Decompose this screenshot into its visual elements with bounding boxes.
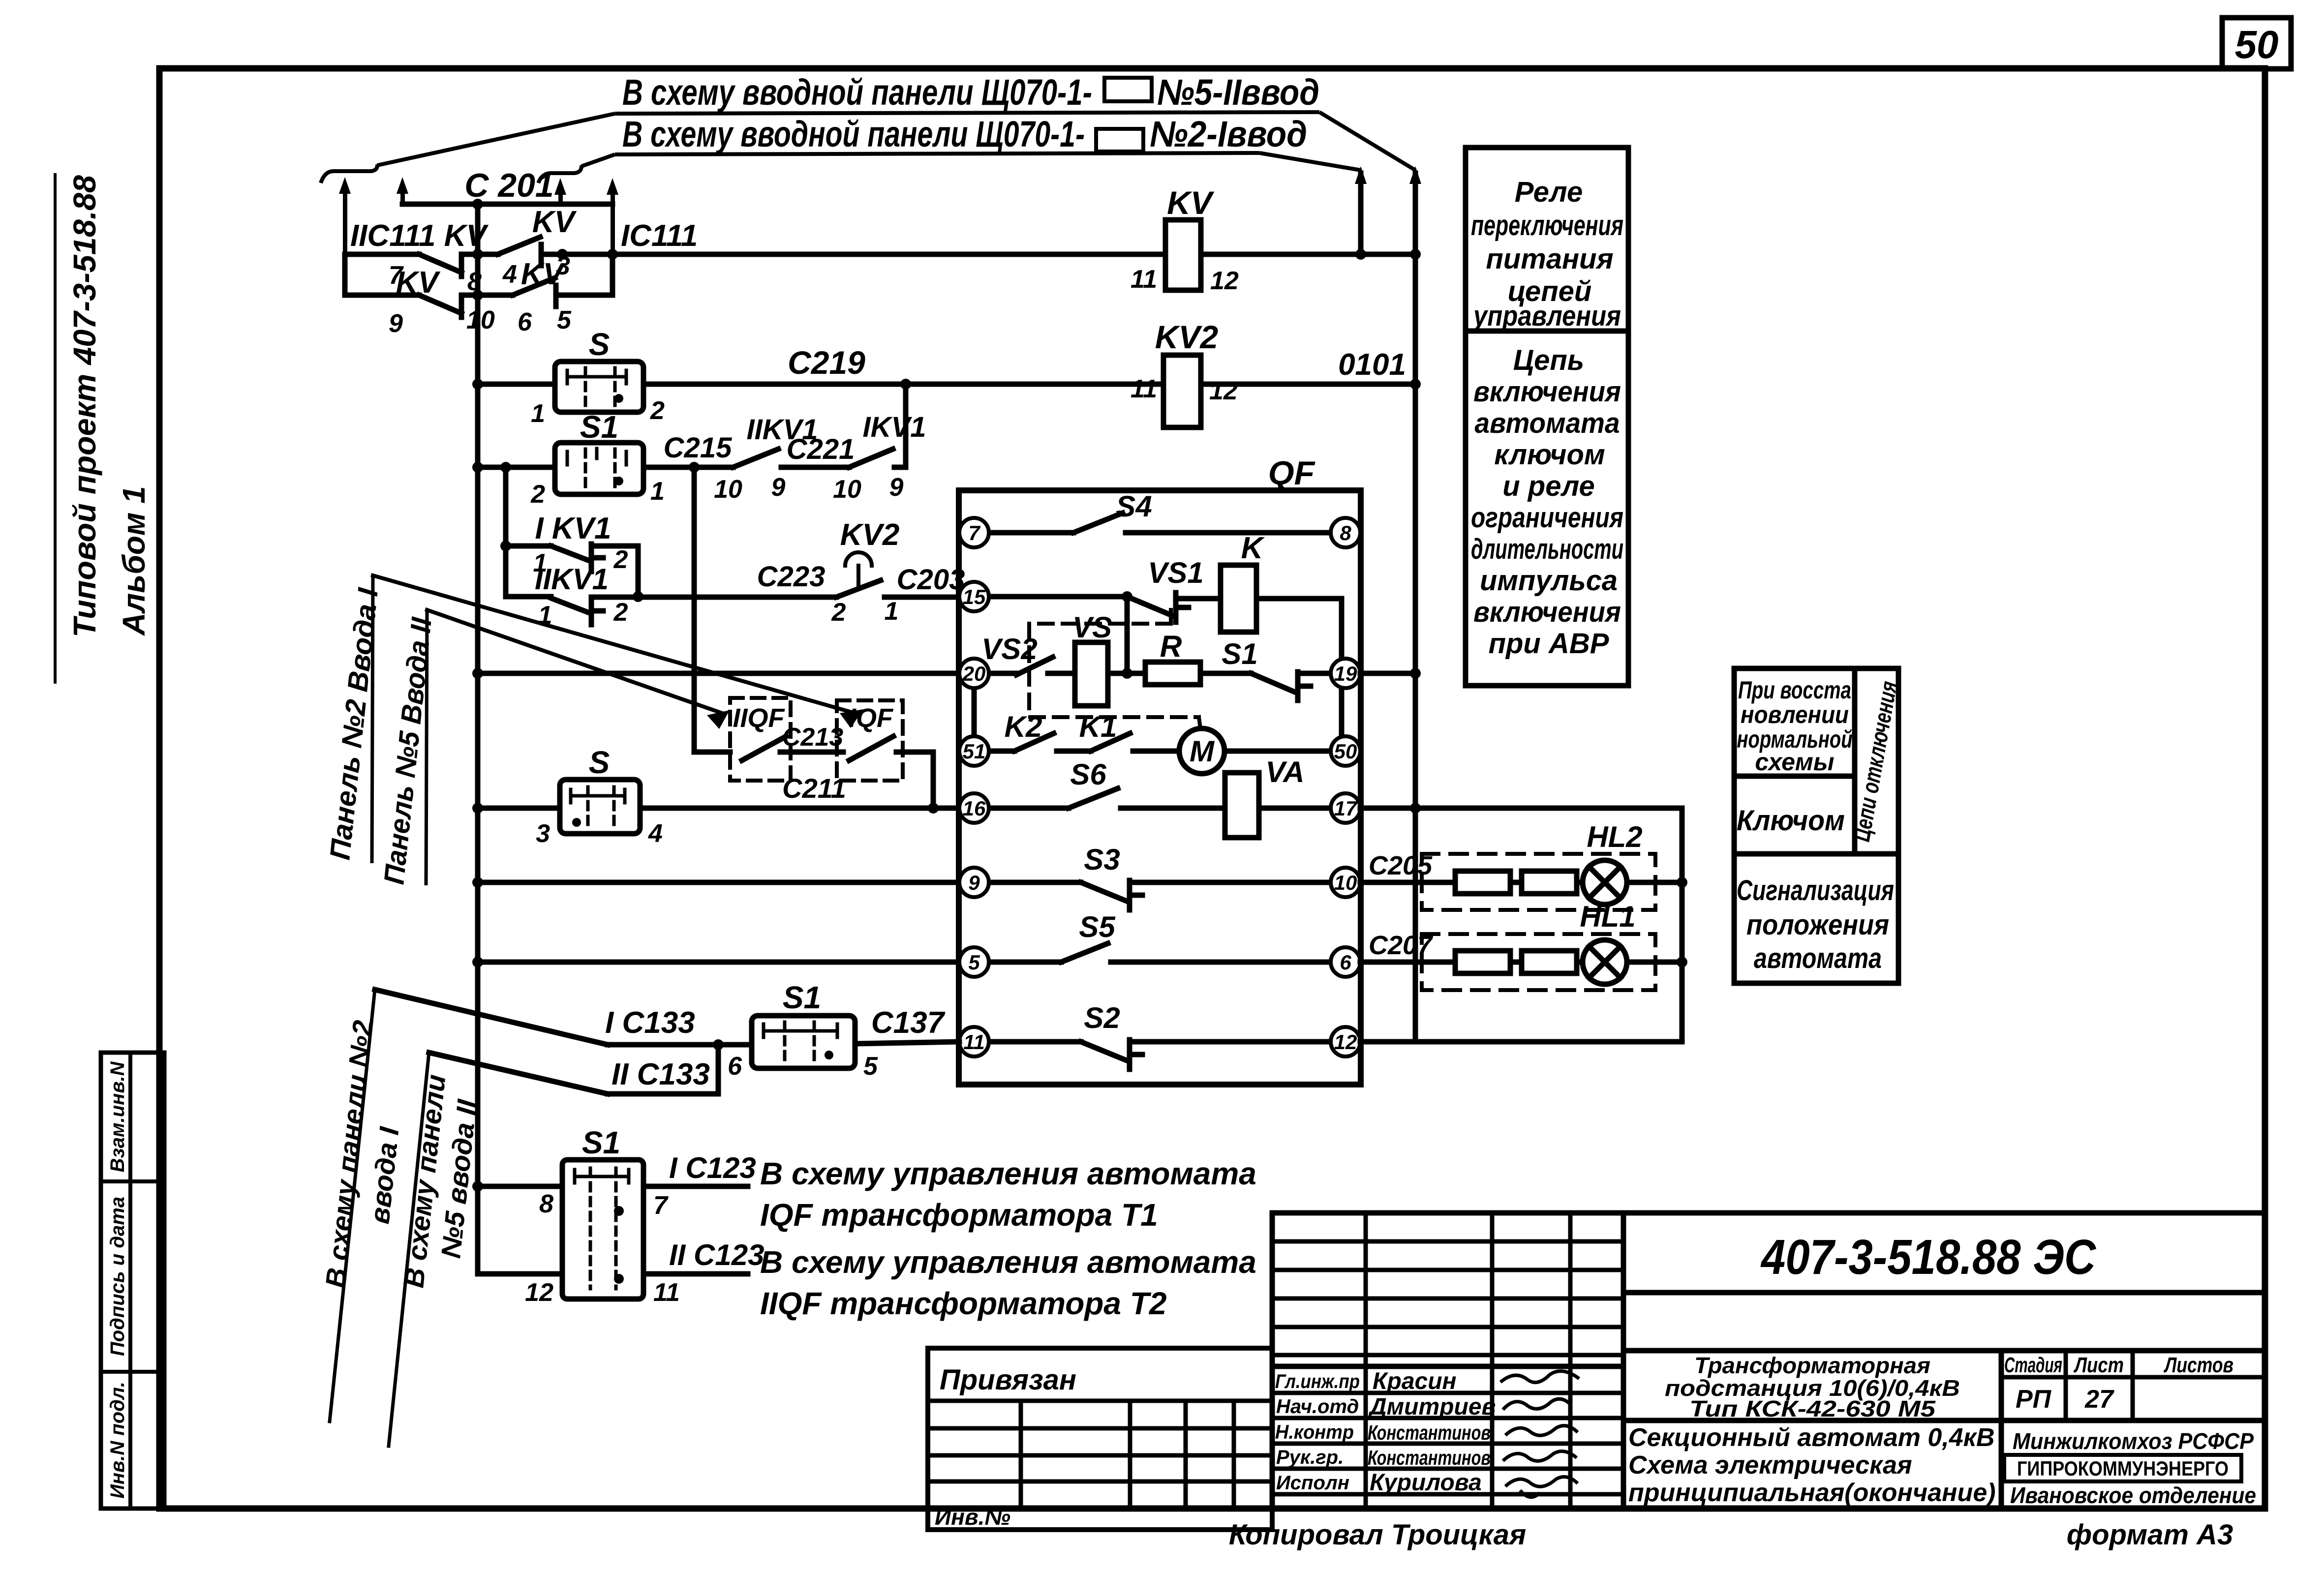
S row16 internals	[571, 789, 625, 803]
function panel 2 box	[1734, 668, 1898, 983]
title col main divider	[1621, 1213, 1626, 1509]
margin note underline	[54, 173, 57, 684]
note 1 box symbol	[1104, 78, 1152, 101]
svg-text:Ивановское отделение: Ивановское отделение	[2010, 1482, 2256, 1508]
binding header bottom	[928, 1399, 1272, 1403]
RIGHTSIDE	[1360, 173, 1682, 1042]
svg-text:Секционный автомат 0,4кВ: Секционный автомат 0,4кВ	[1628, 1423, 1995, 1452]
leader arrow to IIQF	[427, 610, 722, 713]
svg-text:11: 11	[653, 1278, 680, 1307]
wire right bus II vertical	[1413, 173, 1418, 808]
lamp circuit HL2 dashed box	[1422, 854, 1655, 910]
svg-text:C213: C213	[782, 723, 843, 752]
aux module dashed box VS	[1029, 610, 1199, 717]
wire riser 15-20	[1125, 597, 1130, 673]
svg-text:IKV1: IKV1	[863, 411, 926, 443]
svg-text:9: 9	[889, 473, 904, 502]
TERMINALS	[959, 518, 1360, 1056]
QFBOX	[959, 490, 1361, 1085]
PANELS	[1466, 148, 1898, 983]
node bus II rowA	[1410, 249, 1421, 260]
contact I KV1 aux blade	[551, 546, 589, 561]
svg-text:S6: S6	[1070, 758, 1106, 791]
contact S3 blade	[1081, 882, 1127, 901]
aux box IQF dashed	[837, 700, 903, 781]
svg-text:автомата: автомата	[1754, 942, 1882, 974]
svg-text:9: 9	[968, 871, 980, 894]
svg-text:C 201: C 201	[464, 167, 553, 204]
wire dashed box to motor	[1199, 717, 1200, 728]
wire HL2 to frame	[1627, 880, 1682, 885]
strip divider 2	[101, 1370, 164, 1374]
wire S3 to 10	[1130, 880, 1331, 885]
svg-text:Исполн: Исполн	[1276, 1472, 1349, 1494]
terminal 7	[959, 518, 989, 547]
contact KV2 blade row 15	[836, 580, 881, 597]
svg-text:C219: C219	[788, 344, 865, 381]
wire row 2 left	[345, 293, 419, 298]
wire row A IC111 to KV coil	[612, 252, 1165, 257]
wire row C bus to S1 block	[478, 465, 555, 470]
mini row 1	[1272, 1239, 1623, 1244]
wire S1 feeder top	[478, 1184, 562, 1189]
contact VS1 tick	[1176, 593, 1189, 622]
svg-text:5: 5	[863, 1052, 878, 1081]
switch block S row B	[555, 362, 643, 412]
binding col 3	[1184, 1401, 1188, 1509]
binding col 4	[1232, 1401, 1236, 1509]
strip divider 1	[101, 1179, 164, 1183]
signature 2	[1503, 1399, 1571, 1410]
wire C215-C213 riser	[694, 467, 730, 752]
PRIVYAZAN TABLE	[928, 1348, 1272, 1530]
svg-text:2: 2	[613, 598, 628, 627]
contact KV 9-10 blade	[419, 295, 461, 313]
wire row 16 bus to S block	[478, 806, 560, 811]
node IC133 dot	[713, 1039, 724, 1050]
switch block S1 row C	[555, 443, 643, 494]
terminal 19	[1331, 659, 1360, 688]
svg-text:9: 9	[389, 309, 403, 338]
wire row B bus to S block	[478, 382, 555, 387]
relay coil KV	[1165, 220, 1201, 290]
svg-text:I KV1: I KV1	[535, 512, 611, 545]
wire IIC133 diagonal	[429, 1053, 608, 1094]
svg-text:KV: KV	[396, 266, 441, 300]
svg-text:10: 10	[833, 475, 861, 504]
svg-text:S: S	[589, 745, 610, 780]
left margin stamp strip	[101, 1053, 164, 1509]
svg-text:50: 50	[1334, 740, 1357, 763]
svg-text:8: 8	[539, 1190, 553, 1218]
svg-text:16: 16	[963, 797, 986, 820]
wire S5 to 6	[1111, 960, 1331, 965]
svg-text:формат А3: формат А3	[2067, 1519, 2233, 1551]
wire IC133 row	[608, 1042, 752, 1048]
svg-text:KV: KV	[1167, 184, 1215, 221]
svg-text:Лист: Лист	[2074, 1353, 2124, 1377]
wire right bus I vertical	[1358, 173, 1364, 254]
wire K coil to terminal 19 riser	[1256, 599, 1342, 659]
leader line panel No2	[330, 990, 375, 1421]
org box ГИПРОКОММУНЭНЕРГО	[2004, 1455, 2241, 1481]
KV1 AUX PAIR	[506, 467, 959, 625]
wire I KV1 aux right	[591, 546, 638, 597]
relay coil KV2	[1163, 355, 1201, 427]
wire C213 between boxes	[780, 750, 843, 755]
svg-text:VA: VA	[1266, 755, 1305, 788]
svg-text:переключения: переключения	[1471, 210, 1623, 241]
svg-text:3: 3	[536, 819, 550, 848]
svg-text:питания: питания	[1486, 243, 1613, 275]
resistor HL2 b	[1522, 871, 1577, 894]
contact II KV1 aux blade	[551, 598, 589, 613]
svg-text:6: 6	[1340, 951, 1351, 974]
S1 C137 internals	[764, 1024, 837, 1037]
wire 6 to lamp HL1	[1360, 960, 1451, 965]
contact KV 6-5 blade	[513, 278, 555, 295]
svg-text:S1: S1	[582, 1125, 620, 1160]
binding col 2	[1128, 1401, 1132, 1509]
svg-text:10: 10	[466, 306, 495, 334]
svg-text:12: 12	[1210, 267, 1239, 295]
contact K1 blade	[1091, 733, 1130, 751]
svg-text:9: 9	[771, 473, 786, 502]
signature 4	[1503, 1451, 1577, 1461]
node bus/row20	[472, 668, 483, 679]
svg-text:C137: C137	[871, 1006, 946, 1040]
wire 9 lead	[989, 880, 1081, 885]
node C219 join	[900, 379, 911, 390]
wire KV1 pair left riser	[503, 467, 509, 597]
svg-text:8: 8	[1340, 521, 1351, 544]
svg-text:№5-IIввод: №5-IIввод	[1157, 72, 1319, 113]
wire 19 to bus	[1360, 671, 1415, 676]
svg-text:11: 11	[1131, 375, 1157, 403]
switch block S row 16	[560, 780, 640, 834]
terminal 5	[959, 947, 989, 977]
relay coil K	[1221, 565, 1256, 632]
binding row 2	[928, 1426, 1272, 1431]
S1 feeder internals	[575, 1170, 629, 1183]
function panel 1 box	[1466, 148, 1628, 686]
panel No5 underline	[426, 610, 427, 885]
svg-text:Альбом 1: Альбом 1	[116, 486, 152, 636]
function panel 2 row divider 2	[1734, 851, 1898, 857]
contact II KV1 blade (C215-C221)	[733, 449, 778, 467]
contact S2 blade	[1081, 1042, 1127, 1060]
binding row 3	[928, 1453, 1272, 1458]
svg-text:2: 2	[613, 545, 628, 574]
wire VS1 to K coil	[1176, 596, 1221, 602]
svg-text:Рук.гр.: Рук.гр.	[1276, 1447, 1344, 1468]
binding row 4	[928, 1479, 1272, 1484]
breaker unit QF outline	[959, 490, 1361, 1085]
wire S1 feeder bottom	[478, 1271, 562, 1277]
wire main left bus vertical	[478, 204, 562, 1274]
leader line panel No5	[389, 1053, 429, 1446]
wire row 15 C203 to QF	[885, 595, 959, 600]
svg-text:IIC111 KV: IIC111 KV	[350, 219, 489, 253]
terminal 17	[1331, 793, 1360, 823]
note 2 underline	[615, 153, 1259, 154]
lamp HL2	[1583, 860, 1627, 905]
node bus II row17	[1410, 803, 1421, 814]
node C201 junction	[472, 199, 483, 210]
svg-text:11: 11	[963, 1030, 985, 1054]
terminal 16	[959, 793, 989, 823]
panel text При восстановлении нормальной схемы	[1737, 676, 1853, 776]
svg-text:II C123: II C123	[669, 1238, 764, 1271]
wire IC133/IIC133 link	[608, 1045, 718, 1094]
motor M	[1179, 728, 1224, 774]
svg-text:новлении: новлении	[1741, 701, 1849, 728]
switch block S1 C137	[752, 1016, 855, 1068]
svg-text:импульса: импульса	[1480, 565, 1618, 597]
signature 1	[1500, 1371, 1579, 1383]
svg-text:включения: включения	[1473, 596, 1621, 628]
doc number cell bottom	[1623, 1290, 2265, 1296]
mini row 2	[1272, 1268, 1623, 1272]
wire VS to R	[1108, 671, 1145, 676]
wire R to S1	[1200, 671, 1251, 676]
contact S6 blade	[1069, 788, 1118, 808]
title col B	[1490, 1213, 1495, 1509]
arrow stub IIC111	[339, 177, 351, 194]
contact S4 blade	[1073, 513, 1123, 533]
svg-text:KV: KV	[521, 257, 566, 291]
svg-text:KV2: KV2	[1155, 319, 1219, 355]
svg-text:S: S	[589, 327, 610, 362]
svg-text:S1: S1	[580, 409, 618, 445]
svg-text:IIQF трансформатора Т2: IIQF трансформатора Т2	[760, 1286, 1166, 1321]
svg-text:Типовой проект 407-3-518.88: Типовой проект 407-3-518.88	[67, 175, 102, 637]
svg-text:51: 51	[963, 740, 986, 763]
title col C	[1568, 1213, 1573, 1509]
S row16 dots	[572, 818, 581, 827]
svg-text:1: 1	[531, 399, 545, 428]
wire S2 to 12	[1130, 1039, 1331, 1045]
svg-text:C203: C203	[897, 564, 965, 596]
contact IQF blade	[849, 736, 893, 760]
svg-text:S5: S5	[1079, 910, 1116, 943]
wire row B KV2 coil to right bus 0101	[1201, 382, 1415, 387]
svg-text:2: 2	[831, 598, 846, 627]
wire HL2 mid2	[1577, 880, 1583, 885]
svg-text:S2: S2	[1084, 1001, 1120, 1034]
break mark right	[538, 165, 581, 183]
wire C137 to QF 11	[855, 1042, 959, 1044]
svg-text:II C133: II C133	[612, 1057, 710, 1091]
node bus II row19	[1410, 668, 1421, 679]
node bus/row5	[472, 957, 483, 967]
svg-text:и реле: и реле	[1502, 470, 1595, 502]
svg-text:15: 15	[963, 585, 986, 608]
node C215 riser	[689, 462, 700, 473]
svg-text:Гл.инж.пр: Гл.инж.пр	[1275, 1371, 1360, 1392]
wire IC133 diagonal	[375, 990, 608, 1045]
node bus/C215	[472, 462, 483, 473]
contact K2 blade	[1014, 733, 1054, 751]
wire 19 to 50 link	[1339, 688, 1345, 735]
svg-text:20: 20	[962, 662, 986, 685]
svg-text:HL1: HL1	[1580, 900, 1635, 933]
info section mid	[1623, 1418, 2265, 1423]
wire row IIC111 mid	[461, 252, 498, 257]
wire IC123	[643, 1184, 748, 1189]
svg-text:12: 12	[525, 1278, 553, 1307]
wire C213 to C211 drop	[896, 752, 933, 808]
svg-text:Схема электрическая: Схема электрическая	[1628, 1451, 1912, 1479]
contact KV2 bell symbol	[845, 552, 872, 588]
contact VS1 blade	[1127, 597, 1173, 616]
leader arrow to IQF	[373, 575, 855, 713]
wire HL1 to frame	[1627, 960, 1682, 965]
wire HL1 mid1	[1510, 960, 1522, 965]
terminal 20	[959, 659, 989, 688]
contact KV 4-3 blade	[498, 237, 540, 254]
contact KV 6-5 tick	[553, 285, 559, 306]
wire 16 lead	[989, 806, 1069, 811]
svg-text:управления: управления	[1472, 300, 1621, 332]
svg-text:7: 7	[968, 521, 980, 544]
note 1 underline	[615, 112, 1319, 114]
svg-text:5: 5	[968, 951, 980, 974]
note 2 box symbol	[1096, 129, 1143, 151]
wire row B S block to KV2 coil	[643, 382, 1163, 387]
relay coil VA	[1225, 773, 1259, 838]
svg-text:VS1: VS1	[1148, 556, 1203, 589]
svg-text:№2-Iввод: №2-Iввод	[1150, 114, 1307, 154]
svg-text:C211: C211	[782, 773, 846, 804]
strip inner vertical	[128, 1053, 132, 1509]
contact KV 7-8 tick	[459, 255, 464, 276]
resistor HL1 b	[1522, 951, 1577, 973]
contact KV 9-10 tick	[459, 296, 464, 317]
panel No2 underline	[372, 575, 373, 863]
leader from note2 to left break mark	[581, 154, 615, 166]
arrow stub C201 right	[554, 178, 566, 195]
contact S5 blade	[1061, 943, 1108, 962]
leader from note2 to right bus I	[1259, 153, 1361, 170]
svg-text:IIKV1: IIKV1	[535, 563, 609, 596]
terminal 15	[959, 582, 989, 611]
svg-text:S1: S1	[1222, 637, 1257, 670]
names row 4	[1272, 1467, 1623, 1471]
contact KV 4-3 tick	[539, 244, 544, 266]
svg-text:Копировал Троицкая: Копировал Троицкая	[1229, 1519, 1526, 1551]
wire HL2 mid1	[1510, 880, 1522, 885]
terminal 10	[1331, 868, 1360, 897]
node bus/row2	[472, 290, 483, 301]
svg-text:R: R	[1160, 630, 1182, 664]
wire VS2 lead	[989, 671, 1016, 676]
node row A x1143	[557, 249, 568, 260]
svg-text:10: 10	[714, 475, 742, 504]
svg-text:S1: S1	[783, 980, 821, 1015]
node row A x1245	[607, 249, 618, 260]
wire VA to 17	[1259, 806, 1331, 811]
MIDROWS	[478, 220, 1415, 494]
svg-text:C207: C207	[1369, 931, 1434, 960]
signature 5	[1505, 1477, 1578, 1497]
svg-text:27: 27	[2084, 1385, 2114, 1414]
node bus/row9	[472, 877, 483, 888]
svg-text:C205: C205	[1369, 851, 1433, 880]
wire row 16 C211 to QF	[640, 806, 959, 811]
wire 5 lead	[989, 960, 1061, 965]
svg-text:ограничения: ограничения	[1471, 502, 1623, 534]
resistor HL1 a	[1455, 951, 1510, 973]
signature 3	[1505, 1426, 1578, 1436]
wire row15 to VS1	[989, 594, 1127, 600]
svg-text:19: 19	[1334, 662, 1357, 685]
LEFTCOL	[101, 1053, 164, 1509]
svg-text:VS2: VS2	[981, 633, 1037, 665]
svg-text:IC111: IC111	[621, 219, 698, 253]
wire IIC123	[643, 1271, 748, 1277]
svg-text:K1: K1	[1079, 710, 1117, 743]
wire row 15 left lead	[506, 594, 551, 600]
node bus/IIC111	[472, 249, 483, 260]
names row 2	[1272, 1416, 1623, 1420]
terminal 6	[1331, 947, 1360, 977]
LOWBUS	[373, 467, 959, 962]
svg-text:0101: 0101	[1338, 348, 1406, 382]
wire row IIC111 left	[345, 252, 419, 257]
svg-text:5: 5	[557, 306, 572, 334]
svg-text:KV2: KV2	[840, 518, 900, 552]
svg-text:Ключом: Ключом	[1737, 805, 1845, 837]
wire row 2 mid	[461, 293, 513, 298]
terminal 8	[1331, 518, 1360, 547]
svg-text:Инв.N подл.: Инв.N подл.	[107, 1382, 128, 1499]
svg-text:2: 2	[650, 396, 665, 425]
names row 3	[1272, 1442, 1623, 1446]
arrow head right bus I	[1355, 166, 1367, 184]
wire S4 row right	[1126, 530, 1331, 536]
title col A	[1364, 1213, 1368, 1509]
svg-text:Дмитриев: Дмитриев	[1368, 1394, 1496, 1420]
wire I KV1 aux lead	[506, 543, 551, 549]
node KV1 riser top	[500, 462, 511, 473]
svg-text:В схему управления автомата: В схему управления автомата	[760, 1244, 1256, 1280]
wire row C S1 to contact	[643, 465, 733, 470]
wire K1 to motor	[1133, 749, 1179, 754]
TITLEBLOCK	[1272, 1213, 2265, 1509]
svg-text:РП: РП	[2016, 1385, 2052, 1414]
node C211 join	[928, 803, 939, 814]
wire VS2 to VS rect	[1048, 671, 1075, 676]
node row15 riser top	[1122, 591, 1132, 602]
terminal 50	[1331, 736, 1360, 766]
svg-text:12: 12	[1209, 377, 1238, 405]
svg-text:При восста: При восста	[1738, 676, 1851, 704]
terminal 12	[1331, 1027, 1360, 1056]
svg-text:50: 50	[2235, 23, 2279, 66]
node HL1 out	[1677, 957, 1687, 967]
svg-text:I C133: I C133	[605, 1006, 695, 1040]
svg-text:Стадия: Стадия	[2004, 1353, 2062, 1377]
svg-text:Красин: Красин	[1373, 1368, 1457, 1394]
wire left stub down	[342, 254, 348, 295]
svg-text:7: 7	[653, 1191, 669, 1220]
svg-text:длительности: длительности	[1471, 533, 1623, 565]
svg-text:В схему вводной панели Щ070: В схему вводной панели Щ070-1-	[622, 72, 1092, 113]
signal frame right	[1680, 808, 1685, 1042]
node bus I rowA	[1355, 249, 1366, 260]
wire row 5 bus to QF	[478, 960, 959, 965]
